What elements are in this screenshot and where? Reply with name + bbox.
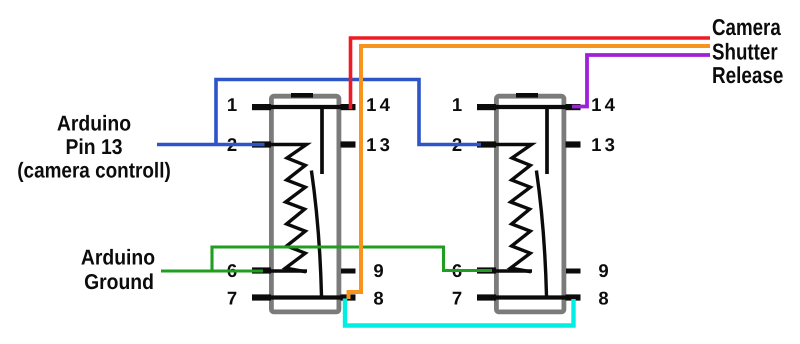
svg-text:8: 8 (598, 287, 608, 308)
relay K2 pin 1 stub (477, 104, 496, 110)
relay K1 pin label 14 (366, 94, 391, 115)
svg-text:3: 3 (380, 134, 390, 155)
relay K2 pin 2 stub (477, 141, 496, 147)
relay K1 internal trace pin7-pin8 (253, 295, 353, 299)
relay K1 pin label 13 (366, 134, 390, 155)
svg-text:1: 1 (366, 134, 376, 155)
svg-text:1: 1 (452, 94, 462, 115)
relay K1 pin 14 stub (341, 104, 356, 110)
svg-text:1: 1 (227, 94, 237, 115)
svg-text:Arduino: Arduino (81, 245, 155, 269)
svg-text:7: 7 (452, 287, 462, 308)
svg-text:Shutter: Shutter (712, 38, 778, 64)
relay K1 internal trace pin1-pin14 (253, 105, 353, 109)
svg-text:Pin 13: Pin 13 (65, 135, 122, 159)
relay K2 pin 9 stub (566, 269, 581, 274)
relay K1 pin 2 stub (252, 141, 271, 147)
relay K1 pin-1 end notch (291, 93, 313, 98)
node label: Arduino Ground (81, 245, 155, 294)
relay K2 pin-1 end notch (516, 93, 538, 98)
svg-text:9: 9 (373, 260, 383, 281)
svg-text:4: 4 (605, 94, 616, 115)
svg-text:8: 8 (373, 287, 383, 308)
relay K2 pin 14 stub (566, 104, 581, 110)
svg-text:Arduino: Arduino (57, 111, 131, 135)
relay K1 pin 8 stub (341, 294, 356, 300)
relay K2 coil bottom lead to pin 6 (478, 269, 532, 272)
relay K2 internal trace pin7-pin8 (478, 295, 578, 299)
relay K2 pin label 13 (591, 134, 615, 155)
relay K2 pin 8 stub (566, 294, 581, 300)
relay K2 pin 7 stub (477, 294, 496, 300)
wire: red K1 pin 14 to camera shutter release (351, 38, 711, 109)
relay K2 coil (pins 2-6) (478, 145, 532, 272)
relay K1 pin 7 stub (252, 294, 271, 300)
svg-text:1: 1 (591, 94, 601, 115)
svg-text:4: 4 (380, 94, 391, 115)
node label: Camera Shutter Release (712, 14, 783, 88)
relay K2 pin 13 stub (566, 141, 581, 147)
relay K2 package body (496, 96, 564, 312)
relay K1 coil (pins 2-6) (253, 145, 307, 272)
relay K1 pin 9 stub (341, 269, 356, 274)
svg-text:1: 1 (591, 134, 601, 155)
svg-text:Camera: Camera (712, 14, 781, 40)
wire: purple K2 pin 14 to camera shutter release (572, 55, 710, 107)
relay K2 internal trace pin1-pin14 (478, 105, 578, 109)
relay K2 contact blade (536, 171, 546, 297)
relay K1 package body (271, 96, 339, 312)
wire: blue branch from junction up and over to K2 pin 2 (216, 80, 481, 145)
relay K1 coil bottom lead to pin 6 (253, 269, 307, 272)
relay K1 pin 1 stub (252, 104, 271, 110)
svg-text:7: 7 (227, 287, 237, 308)
relay K1 pin 13 stub (341, 141, 356, 147)
relay K2 contact stationary lead (545, 107, 549, 174)
wire: orange K1 pin 8 to camera shutter release (349, 46, 711, 299)
svg-text:1: 1 (366, 94, 376, 115)
relay K1 contact blade (311, 171, 321, 297)
svg-text:Ground: Ground (84, 270, 154, 294)
node label: Arduino Pin 13 (camera controll) (17, 111, 171, 182)
svg-text:Release: Release (712, 62, 783, 88)
svg-text:9: 9 (598, 260, 608, 281)
relay K1 pin 6 stub (252, 267, 271, 273)
relay K2 pin 6 stub (477, 267, 496, 273)
relay K1 contact stationary lead (320, 107, 324, 174)
relay K2 pin label 14 (591, 94, 616, 115)
wire: blue Arduino Pin 13 to K1 pin 2 (157, 143, 265, 147)
svg-text:(camera controll): (camera controll) (17, 159, 171, 183)
wire: green branch from junction up and over to K2 pin 6 (212, 247, 492, 271)
svg-text:3: 3 (605, 134, 615, 155)
wire: cyan K1 pin 8 to K2 pin 8 (345, 299, 574, 326)
wire: green Arduino Ground to K1 pin 6 (161, 269, 263, 272)
